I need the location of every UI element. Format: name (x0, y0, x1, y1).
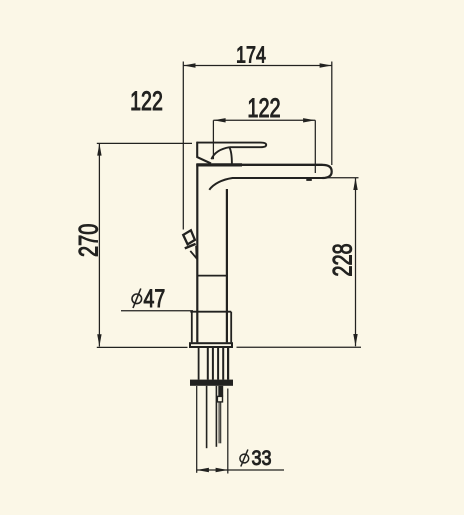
spout bottom (209, 178, 322, 190)
base right edge (230, 312, 232, 343)
dim 122 arrow right (303, 118, 315, 122)
dim 270 arrow up (97, 143, 101, 155)
dim 270 arrow down (97, 334, 101, 346)
nozzle tip (190, 246, 196, 259)
base top line (190, 311, 231, 313)
svg-text:228: 228 (328, 243, 359, 276)
dim 174 ext right (331, 62, 333, 166)
aerator bump (306, 179, 312, 181)
dim phi33 arrow left (197, 468, 209, 472)
dim 122 ext right (314, 120, 316, 173)
svg-text:174: 174 (236, 43, 266, 69)
shank line 3 (212, 348, 214, 380)
pull rod thin right (220, 402, 222, 443)
dim 122 ext left (212, 120, 214, 159)
dim phi33 line (197, 469, 284, 471)
handle base chamfer (197, 157, 211, 164)
dim 228 ext top (327, 177, 359, 179)
mounting plate (190, 343, 232, 347)
label phi47 leader (121, 310, 193, 312)
shank line 6 (227, 348, 229, 380)
body right edge (226, 189, 228, 342)
dim 174 arrow left (183, 63, 195, 67)
shank line 5 (222, 348, 224, 380)
svg-text:122: 122 (130, 86, 163, 116)
body left edge (196, 164, 198, 342)
dim 270 ext bottom (97, 346, 188, 348)
nozzle square (183, 230, 195, 244)
svg-text:122: 122 (247, 93, 280, 124)
label phi47 symbol (132, 294, 142, 304)
base left edge (191, 312, 193, 343)
handle neck curve (211, 147, 229, 159)
dim 270 line (98, 143, 100, 346)
shank line 1 (198, 348, 200, 380)
body joint line (197, 275, 227, 277)
dim 228 arrow down (353, 334, 357, 346)
handle base left edge (196, 142, 198, 158)
dim 228 arrow up (353, 178, 357, 190)
shank line 4 (217, 348, 219, 380)
dim 270 ext top (97, 142, 192, 144)
dim phi33 ext right (227, 389, 229, 474)
dim 228 ext bottom (237, 346, 362, 348)
dim 228 line (355, 178, 357, 346)
dim phi33 arrow right (216, 468, 228, 472)
nozzle band (185, 244, 196, 249)
dim phi33 symbol (240, 454, 249, 463)
spout cap (323, 165, 332, 178)
dim 174 ext left (182, 62, 184, 230)
pull rod stub (218, 386, 223, 397)
lever handle top (197, 143, 266, 148)
pull rod thin left (218, 402, 220, 443)
dim 174 arrow right (320, 63, 332, 67)
dim 174 line (183, 65, 331, 67)
pull rod left line (215, 386, 217, 447)
svg-text:270: 270 (74, 224, 105, 257)
mounting nut (190, 380, 233, 386)
handle base right curve (229, 147, 232, 164)
dim 122 line (213, 119, 315, 121)
shank line 2 (207, 348, 209, 380)
supply hose (206, 386, 208, 448)
dim 122 arrow left (213, 118, 225, 122)
pull rod joint (217, 396, 222, 402)
spout top line (196, 163, 242, 166)
svg-text:47: 47 (144, 284, 166, 312)
svg-text:33: 33 (252, 447, 272, 471)
dim phi33 ext left (196, 386, 198, 473)
